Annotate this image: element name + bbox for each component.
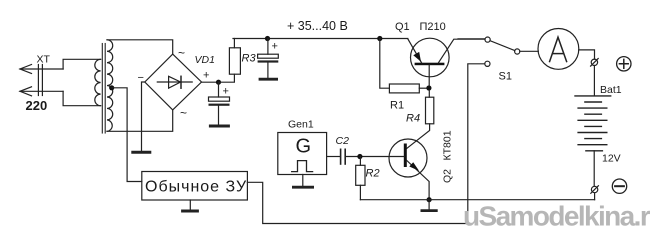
svg-text:R4: R4 [406, 113, 420, 125]
svg-text:+: + [272, 41, 278, 53]
svg-text:П210: П210 [420, 21, 446, 33]
terminal clamp + (circle with slash) [591, 59, 599, 67]
resistor R2 [356, 165, 365, 185]
wire: bridge plus output [202, 81, 219, 83]
svg-text:XT: XT [37, 54, 51, 66]
svg-text:Q1: Q1 [395, 21, 410, 33]
transistor Q1 base bar [415, 63, 445, 65]
svg-text:C2: C2 [336, 135, 350, 147]
wire: ammeter to + terminal [579, 50, 595, 59]
svg-text:uSamodelkina.ru: uSamodelkina.ru [463, 201, 650, 232]
ground (charger box) [183, 200, 198, 211]
wire: bridge minus output [142, 82, 145, 151]
svg-text:S1: S1 [499, 71, 512, 83]
svg-text:G: G [296, 136, 312, 158]
transistor Q1 collector [439, 39, 485, 63]
node: rail / R1 branch [377, 36, 382, 41]
wire: - terminal to bottom rail [594, 193, 596, 200]
wire: Gen1 output to C2 [327, 156, 340, 158]
node: Q2 emitter / bottom rail [427, 197, 432, 202]
ground (second filter cap) [260, 78, 277, 81]
ground (Q2 emitter) [422, 200, 436, 211]
terminal clamp - (circle with slash) [591, 186, 599, 194]
wire: charger output to switch S1 alternate contact [247, 64, 484, 224]
node: bridge plus junction [216, 80, 221, 85]
svg-text:12V: 12V [602, 153, 621, 165]
resistor R3 [229, 48, 240, 74]
wire: R4 to Q2 collector [407, 124, 430, 149]
wire: secondary top to bridge ~ (AC rail) [107, 40, 173, 54]
symbol minus in circle [612, 179, 626, 193]
box: Обычное ЗУ [142, 172, 248, 201]
svg-text:Q2: Q2 [442, 169, 454, 183]
svg-text:−: − [138, 72, 144, 84]
wire: R3 top to +35V rail [233, 39, 235, 48]
transistor Q2 base bar [404, 144, 407, 168]
generator Gen1 pulse symbol [292, 161, 313, 172]
transformer T1 secondary winding [107, 40, 113, 132]
wire: node to R2 [359, 157, 361, 166]
svg-text:Обычное ЗУ: Обычное ЗУ [145, 179, 247, 196]
wire: C2 to base node [346, 156, 404, 158]
wire: bottom rail [360, 199, 594, 201]
connector XT pin 2 (arrow + line) [20, 87, 63, 96]
bridge rectifier VD1 diamond [145, 54, 202, 110]
wire: battery bottom to - terminal [593, 151, 595, 186]
svg-text:~: ~ [178, 46, 185, 60]
wire: R1 to Q1 base node [419, 87, 429, 89]
svg-text:VD1: VD1 [195, 54, 215, 66]
svg-text:КТ801: КТ801 [442, 130, 454, 160]
capacitor C1 (filter electrolytic) [209, 82, 230, 124]
transistor Q2 circle [389, 139, 427, 177]
svg-text:R1: R1 [390, 100, 404, 112]
svg-text:~: ~ [180, 106, 187, 120]
switch S1 [458, 37, 538, 66]
svg-text:+: + [203, 70, 209, 82]
bridge diode symbol [157, 76, 192, 88]
node: rail / filter cap 2 [265, 36, 270, 41]
transformer T1 primary winding [95, 59, 101, 105]
svg-text:+ 35...40 В: + 35...40 В [287, 19, 348, 33]
ground (C1) [210, 125, 228, 128]
wire: plus junction to R3 bottom [219, 74, 235, 82]
node: secondary center tap [109, 85, 114, 90]
resistor R1 [389, 84, 419, 93]
ground (Gen1) [293, 175, 312, 188]
resistor R4 [426, 97, 434, 124]
wire: secondary bottom to bridge ~ [107, 110, 173, 131]
svg-text:220: 220 [26, 98, 48, 113]
ammeter A [538, 29, 579, 70]
symbol plus in circle [617, 57, 631, 71]
wire: terminal to battery top [593, 66, 595, 96]
svg-text:Gen1: Gen1 [288, 119, 314, 131]
transformer T1 core [102, 44, 105, 134]
capacitor C2 [341, 149, 346, 164]
wire: center tap to charger box [112, 88, 142, 182]
wire: +35V rail [233, 38, 408, 40]
wire: pin2 to transformer primary bottom [63, 91, 101, 105]
capacitor (second filter electrolytic) [258, 39, 279, 78]
node: Q1 base / R4 [426, 85, 431, 90]
connector XT mating lines [38, 65, 42, 96]
svg-text:R3: R3 [242, 53, 257, 65]
connector XT pin 1 (arrow + line) [20, 65, 63, 74]
transistor Q2 emitter (NPN arrow) [407, 161, 429, 198]
wire: pin1 to transformer primary top [63, 59, 101, 69]
svg-text:+: + [223, 86, 229, 98]
transistor Q1 emitter (from rail, PNP arrow) [408, 39, 422, 63]
wire: R2 to bottom rail [359, 185, 361, 199]
ground (bridge minus) [133, 151, 150, 154]
wire: node to R4 [428, 90, 430, 97]
transistor Q1 circle [411, 38, 450, 77]
generator Gen1 box [278, 133, 327, 175]
svg-text:R2: R2 [366, 168, 380, 180]
node: C2 / R2 / Q2 base [357, 154, 362, 159]
wire: Q1 base stub [428, 65, 430, 85]
svg-text:Bat1: Bat1 [600, 84, 622, 96]
wire: rail down to R1 [380, 39, 390, 89]
battery Bat1 cells [575, 96, 611, 151]
